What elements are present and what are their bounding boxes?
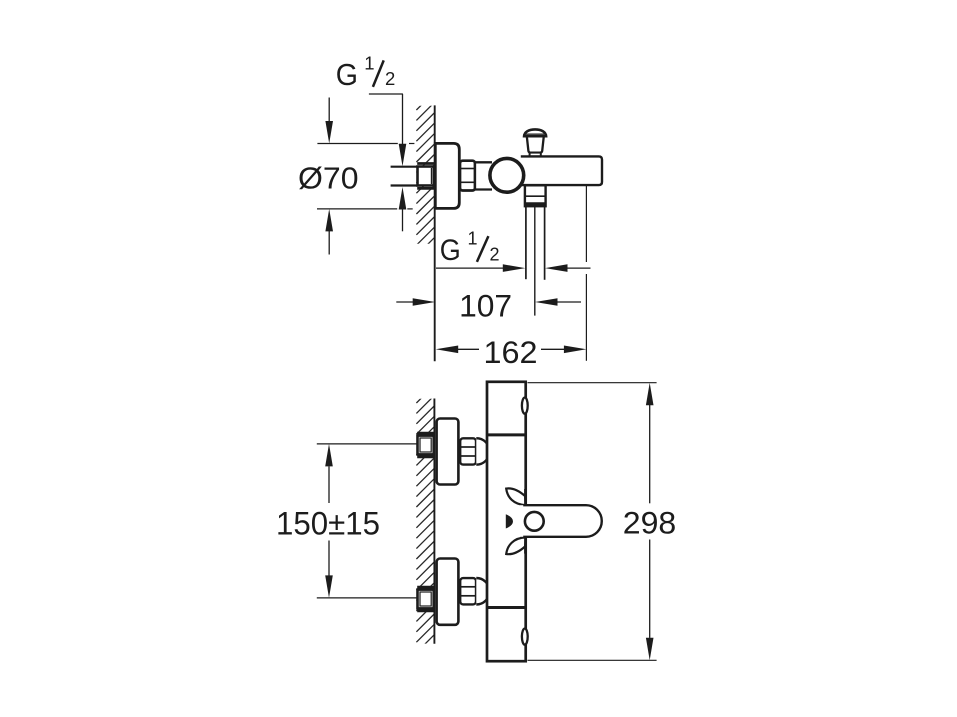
wall hatching (top view) — [416, 92, 434, 255]
dimension 150+-15 — [325, 444, 333, 598]
spout (front view) — [522, 505, 602, 537]
svg-text:Ø70: Ø70 — [298, 160, 359, 195]
dimension O70 arrows — [325, 121, 333, 231]
G1/2 leader shelf and arrows at pipe — [369, 93, 403, 95]
handle leaf bottom — [506, 537, 526, 554]
wall line (front view) — [433, 399, 435, 644]
black economy mark — [506, 514, 513, 528]
connector sleeve — [475, 162, 492, 189]
in-wall fitting top (front view) — [417, 433, 434, 457]
svg-text:2: 2 — [385, 68, 395, 89]
S-union half disc top — [476, 438, 489, 465]
hose outlet block below body — [525, 185, 546, 206]
hex nut bottom (front view) — [460, 578, 476, 604]
in-wall fitting bottom (front view) — [417, 587, 434, 611]
supply pipe through wall — [391, 167, 418, 186]
dimension 298 — [646, 383, 654, 661]
svg-text:G: G — [336, 57, 358, 92]
dimension 150+-15 extension lines — [317, 443, 417, 445]
svg-text:1: 1 — [468, 228, 478, 248]
screw notch bottom — [522, 629, 528, 645]
aerator circle — [525, 512, 544, 531]
wall line (top view) — [434, 105, 436, 361]
faucet body (front view) — [487, 382, 526, 661]
svg-text:150±15: 150±15 — [276, 505, 380, 541]
svg-text:298: 298 — [623, 504, 677, 540]
hex nut top (front view) — [460, 438, 476, 464]
dimension 107 — [396, 301, 414, 303]
hex union nut (top view) — [460, 161, 475, 191]
svg-text:2: 2 — [490, 245, 500, 265]
dimension 162 — [436, 346, 587, 354]
in-wall fitting (top view) — [417, 164, 434, 189]
diverter knob on top of body — [524, 129, 546, 136]
dimension G1/2 hose line + arrows — [436, 267, 504, 269]
svg-text:1: 1 — [364, 52, 374, 73]
escutcheon top (front view) — [437, 419, 459, 485]
extension line from spout outlet (162) — [585, 185, 587, 262]
svg-text:G: G — [440, 234, 461, 267]
escutcheon bottom (front view) — [437, 559, 459, 625]
dimension O70 extension lines — [317, 144, 414, 209]
wall escutcheon flange O70 (top view) — [435, 143, 459, 208]
valve cartridge circle — [490, 158, 524, 192]
shower hose lines — [526, 206, 545, 315]
screw notch top — [522, 398, 528, 414]
dimension 298 extension lines — [528, 382, 657, 384]
S-union half disc bottom — [476, 578, 489, 605]
wall hatching (front view) — [416, 385, 434, 652]
handle leaf top — [506, 488, 526, 505]
svg-text:162: 162 — [484, 334, 538, 370]
svg-text:107: 107 — [459, 288, 512, 324]
faucet body / spout bar (top view) — [521, 156, 602, 185]
